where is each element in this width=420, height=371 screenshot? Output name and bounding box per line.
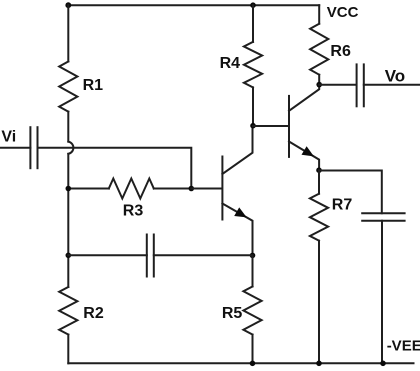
svg-text:R4: R4 <box>220 55 241 72</box>
junction dot Q1 collector / Q2 base node <box>250 123 256 129</box>
svg-text:VCC: VCC <box>327 4 359 21</box>
transistor Q1 <box>191 126 252 256</box>
svg-text:Vi: Vi <box>1 129 16 146</box>
junction dot node B <box>66 253 72 259</box>
junction dot VEE rail / C4 <box>380 361 386 367</box>
svg-text:R2: R2 <box>83 305 104 322</box>
wire C3 to Q1 emitter node <box>154 254 253 256</box>
capacitor C1 input coupling <box>30 127 37 168</box>
resistor R3 <box>109 179 154 220</box>
capacitor C3 bypass <box>147 235 154 277</box>
svg-text:R5: R5 <box>222 305 243 322</box>
junction dot Q1 emitter / C3 node <box>250 253 256 259</box>
wire crossover hop (no connection) over Vi wire <box>68 142 73 154</box>
transistor Q2 <box>289 85 319 171</box>
wire node A down to node B (bypass cap row) <box>67 189 69 256</box>
wire C1 to Q1 base corner <box>38 148 192 189</box>
wire hop to node A (base divider) <box>67 154 69 189</box>
junction dot VEE rail / R5 <box>250 361 256 367</box>
wire VCC rail to R1 top <box>67 5 69 61</box>
wire node B to C3 <box>68 254 147 256</box>
resistor R1 <box>59 62 103 112</box>
svg-text:R3: R3 <box>123 203 144 220</box>
wire C4 bottom to VEE rail <box>381 221 383 364</box>
wire node A to R3 left <box>68 188 109 190</box>
junction dot Q2 emitter node <box>316 167 322 173</box>
wire Q1 emitter node to R5 top <box>252 255 254 286</box>
junction dot Q1 base node <box>189 186 195 192</box>
wire R5 bottom to VEE rail <box>252 335 254 364</box>
svg-text:R7: R7 <box>332 197 353 214</box>
resistor R5 <box>222 287 262 335</box>
svg-text:-VEE: -VEE <box>387 338 420 355</box>
wire R6 bottom to output node <box>318 75 320 85</box>
svg-text:Vo: Vo <box>385 66 405 85</box>
wire Q1 collector node to Q2 base <box>253 125 288 127</box>
wire R4 bottom to Q1 collector node <box>252 87 254 125</box>
wire C2 to Vo <box>364 84 419 86</box>
wire R3 right to Q1 base node <box>154 188 192 190</box>
wire bottom VEE rail <box>68 362 413 364</box>
wire VCC rail to R4 top <box>252 5 254 42</box>
svg-text:R1: R1 <box>83 77 104 94</box>
wire Q2 emitter node to C4 branch <box>319 171 382 214</box>
wire Q2 emitter node to R7 top <box>318 170 320 194</box>
junction dot node A <box>66 186 72 192</box>
wire output node to C2 <box>319 84 356 86</box>
wire node B to R2 top <box>67 255 69 287</box>
capacitor C2 output coupling <box>357 64 364 106</box>
wire VCC rail corner to R6 top <box>318 5 320 24</box>
capacitor C4 emitter bypass <box>362 213 404 220</box>
wire R7 bottom to VEE rail <box>318 241 320 364</box>
junction dot top rail / R1 branch <box>65 2 71 8</box>
wire Vi input stub <box>0 147 30 149</box>
junction dot top rail / R4 branch <box>250 2 256 8</box>
resistor R7 <box>310 194 352 241</box>
junction dot output node (R6 / Q2 collector / C2) <box>316 82 322 88</box>
wire R1 bottom to crossover hop <box>67 112 69 142</box>
wire R2 bottom to VEE rail <box>67 335 69 364</box>
svg-text:R6: R6 <box>330 43 351 60</box>
resistor R2 <box>59 287 104 335</box>
resistor R6 <box>310 24 351 75</box>
junction dot VEE rail / R7 <box>316 361 322 367</box>
resistor R4 <box>220 42 263 88</box>
wire top VCC rail <box>68 4 319 6</box>
